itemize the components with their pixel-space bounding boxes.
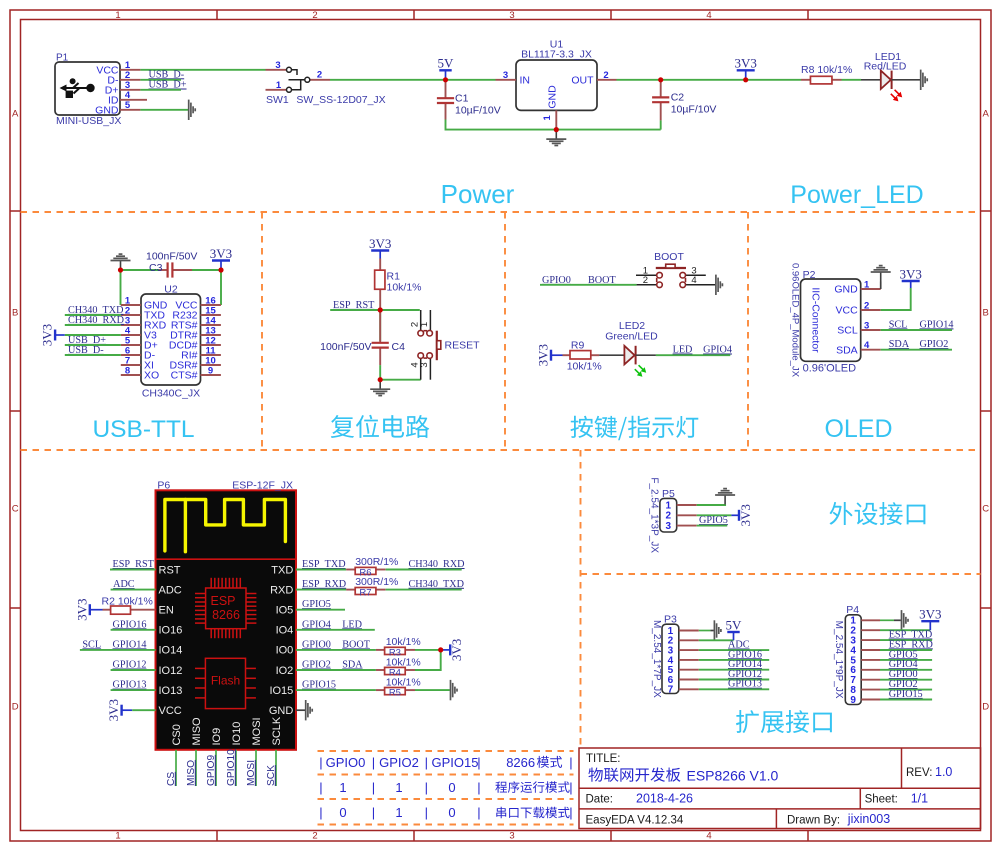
svg-text:10k/1%: 10k/1% — [386, 676, 421, 688]
wire GPIO2 SDA to R4 — [296, 669, 376, 671]
ground at P6 GND — [306, 700, 313, 720]
svg-text:IO13: IO13 — [159, 685, 183, 697]
resistor R6 300R/1% — [346, 556, 398, 570]
svg-text:BOOT: BOOT — [654, 251, 684, 263]
power flag 3V3 LED2 — [536, 344, 563, 366]
title block — [579, 748, 981, 829]
switch SW1 SW_SS-12D07_JX — [266, 60, 386, 106]
wire P4 GPIO0 — [880, 679, 932, 681]
svg-text:2: 2 — [312, 831, 317, 842]
svg-text:CH340_RXD: CH340_RXD — [409, 559, 465, 570]
wire to C4 — [379, 310, 381, 341]
svg-text:9: 9 — [208, 365, 213, 376]
svg-text:M_2.54_1*7P_JX: M_2.54_1*7P_JX — [651, 620, 662, 698]
svg-text:GPIO10: GPIO10 — [226, 749, 237, 786]
resistor R5 body — [385, 688, 406, 695]
boot mode table — [319, 755, 572, 820]
wire P1 GND — [140, 109, 188, 111]
ground at P1 GND — [189, 100, 196, 120]
svg-text:D: D — [982, 702, 989, 713]
svg-text:GPIO15: GPIO15 — [889, 689, 923, 700]
svg-text:RESET: RESET — [445, 340, 481, 352]
svg-text:SDA: SDA — [836, 344, 858, 356]
svg-text:jixin003: jixin003 — [847, 812, 890, 826]
wire USB_D- to U2 — [65, 354, 121, 356]
svg-text:3: 3 — [503, 70, 508, 81]
chip symbol Flash — [195, 658, 256, 708]
svg-text:P4: P4 — [846, 604, 859, 616]
wire P2 VCC to 3V3 — [881, 288, 911, 310]
svg-text:1: 1 — [864, 279, 870, 290]
svg-text:R5: R5 — [389, 688, 401, 699]
regulator U1 BL1117-3.3_JX — [496, 39, 617, 130]
wire P5 pin2 to 3V3 — [697, 514, 732, 516]
junction 3V3 node — [743, 77, 748, 82]
wire P4 GPIO5 — [880, 659, 932, 661]
svg-text:3V3: 3V3 — [106, 699, 121, 721]
section divider dashed lines — [21, 212, 981, 825]
wire 3V3 to V3 — [65, 334, 121, 336]
wire R4 to 3V3 node — [415, 650, 441, 670]
svg-text:U2: U2 — [164, 283, 178, 295]
power flag 5V — [438, 56, 455, 80]
svg-text:SCL: SCL — [82, 639, 101, 650]
power flag 3V3 at P6 VCC — [106, 699, 132, 721]
svg-text:3V3: 3V3 — [919, 607, 941, 622]
svg-text:TXD: TXD — [271, 564, 293, 576]
svg-text:LED: LED — [342, 619, 362, 630]
LED LED2 Green/LED — [599, 320, 658, 377]
svg-text:|: | — [569, 755, 572, 770]
svg-text:A: A — [12, 109, 19, 120]
wire GPIO15 to R5 — [296, 689, 376, 691]
svg-text:1: 1 — [115, 10, 120, 21]
wire C2 to 3V3 flag node — [661, 79, 746, 81]
wire SDA GPIO2 — [881, 349, 952, 351]
svg-text:|: | — [319, 755, 322, 770]
svg-text:|: | — [569, 805, 572, 820]
svg-text:LED: LED — [673, 345, 693, 356]
wire to U2 VCC pin — [220, 270, 222, 305]
svg-text:GPIO2: GPIO2 — [302, 660, 331, 671]
capacitor C1 10uF/10V — [446, 80, 501, 120]
svg-text:|: | — [477, 805, 480, 820]
svg-text:VCC: VCC — [836, 305, 859, 317]
wire C3 right — [192, 269, 221, 271]
svg-text:3V3: 3V3 — [74, 599, 89, 621]
ground at P3 — [714, 620, 721, 640]
svg-text:BL1117-3.3_JX: BL1117-3.3_JX — [521, 49, 592, 61]
section title 按键/指示灯 — [571, 416, 699, 441]
resistor R4 10k/1% — [376, 656, 421, 670]
svg-text:P3: P3 — [664, 614, 677, 626]
svg-text:3V3: 3V3 — [40, 324, 55, 346]
svg-text:SW1: SW1 — [266, 94, 289, 106]
resistor R3 10k/1% — [376, 636, 421, 650]
svg-text:300R/1%: 300R/1% — [355, 556, 398, 568]
wire TXD to R6 — [296, 569, 346, 571]
svg-text:C1: C1 — [455, 93, 469, 105]
title block text — [586, 753, 953, 827]
capacitor C3 plates — [168, 262, 173, 277]
svg-text:CS: CS — [166, 772, 177, 786]
wire P4 GPIO4 — [880, 669, 932, 671]
capacitor C2 10uF/10V — [661, 80, 717, 121]
svg-text:|: | — [425, 805, 428, 820]
svg-text:|: | — [319, 805, 322, 820]
svg-text:IO16: IO16 — [159, 625, 183, 637]
wire P3 GPIO13 — [699, 688, 769, 690]
svg-text:1: 1 — [276, 80, 282, 91]
svg-text:GPIO0: GPIO0 — [326, 755, 366, 770]
wire P3 GPIO16 — [699, 659, 769, 661]
svg-text:GPIO15: GPIO15 — [302, 680, 336, 691]
svg-text:|: | — [372, 755, 375, 770]
ground at BOOT — [716, 275, 723, 295]
svg-text:2: 2 — [317, 70, 322, 81]
wire SCL GPIO14 — [881, 329, 952, 331]
wire P4 GPIO2 — [880, 689, 932, 691]
resistor R4 body — [385, 667, 406, 674]
svg-text:Drawn By:: Drawn By: — [787, 815, 840, 827]
svg-text:3V3: 3V3 — [735, 56, 757, 71]
svg-text:SDA: SDA — [889, 339, 910, 350]
svg-text:0: 0 — [448, 780, 455, 795]
resistor R7 body — [355, 588, 376, 595]
svg-text:RST: RST — [159, 564, 181, 576]
svg-text:GPIO14: GPIO14 — [113, 639, 147, 650]
svg-text:A: A — [983, 109, 990, 120]
svg-text:10k/1%: 10k/1% — [387, 282, 422, 294]
wire GPIO13 — [111, 689, 156, 691]
svg-text:IO15: IO15 — [269, 685, 293, 697]
svg-text:ESP_RST: ESP_RST — [113, 559, 155, 570]
svg-text:2: 2 — [312, 10, 317, 21]
svg-text:RXD: RXD — [270, 584, 293, 596]
svg-text:P2: P2 — [803, 269, 816, 281]
svg-text:GPIO5: GPIO5 — [302, 599, 331, 610]
svg-text:7: 7 — [668, 685, 674, 696]
svg-text:BOOT: BOOT — [342, 639, 371, 650]
svg-text:IN: IN — [520, 74, 531, 86]
svg-text:GPIO5: GPIO5 — [699, 515, 728, 526]
svg-text:3V3: 3V3 — [210, 246, 232, 261]
wire GPIO0 BOOT to R3 — [296, 649, 376, 651]
svg-text:D: D — [12, 702, 19, 713]
svg-text:GPIO4: GPIO4 — [703, 345, 732, 356]
svg-text:SCK: SCK — [266, 765, 277, 786]
svg-text:EasyEDA V4.12.34: EasyEDA V4.12.34 — [586, 815, 684, 827]
connector P4 M_2.54_1*9P_JX — [833, 604, 880, 706]
wire 3V3 to VCC — [132, 709, 155, 711]
wire P4 ESP_TXD — [880, 639, 932, 641]
svg-text:1: 1 — [115, 831, 120, 842]
svg-text:C2: C2 — [671, 92, 685, 104]
wire P4 pin1 to ground — [880, 619, 894, 621]
svg-text:100nF/50V: 100nF/50V — [146, 251, 197, 263]
svg-text:IO9: IO9 — [211, 728, 223, 746]
ground at P4 — [902, 610, 909, 630]
svg-text:MISO: MISO — [186, 760, 197, 786]
svg-text:10k/1%: 10k/1% — [386, 636, 421, 648]
svg-text:USB-TTL: USB-TTL — [92, 416, 194, 443]
svg-text:3V3: 3V3 — [738, 504, 753, 526]
wire 5V to U1 IN — [446, 79, 496, 81]
ground below C4 — [370, 380, 390, 396]
connector P3 M_2.54_1*7P_JX — [651, 614, 699, 699]
svg-text:10k/1%: 10k/1% — [386, 656, 421, 668]
wire P3 GPIO12 — [699, 679, 769, 681]
svg-text:OLED: OLED — [824, 415, 892, 443]
svg-text:1: 1 — [395, 805, 402, 820]
svg-text:3: 3 — [419, 362, 430, 367]
svg-text:CH340C_JX: CH340C_JX — [142, 388, 200, 400]
resistor R3 body — [385, 647, 406, 654]
junction C4 ground node — [378, 377, 383, 382]
svg-text:ESP_TXD: ESP_TXD — [302, 559, 346, 570]
svg-text:1: 1 — [339, 780, 346, 795]
svg-text:|: | — [569, 780, 572, 795]
power flag 5V at P3 — [726, 617, 743, 640]
power flag 3V3 top rail — [735, 56, 757, 80]
svg-text:CH340_TXD: CH340_TXD — [409, 579, 464, 590]
power flag 3V3 at R2 — [74, 599, 102, 621]
ground above P5 — [715, 489, 735, 505]
ground below U1 — [546, 130, 566, 146]
resistor R2 10k/1% — [102, 595, 156, 609]
wire P3 GPIO14 — [699, 669, 769, 671]
svg-text:Red/LED: Red/LED — [864, 60, 907, 72]
svg-text:OUT: OUT — [571, 74, 594, 86]
svg-text:MOSI: MOSI — [251, 717, 263, 745]
svg-text:3V3: 3V3 — [536, 344, 551, 366]
wire C2 to ground rail — [660, 120, 662, 129]
wire USB_D- — [140, 79, 181, 81]
resistor R8 10k/1% — [801, 64, 852, 80]
svg-text:B: B — [12, 308, 18, 319]
wire C1 to ground rail — [446, 120, 557, 130]
ground at R5 — [451, 680, 458, 700]
wire R3 to 3V3 node — [415, 649, 441, 651]
svg-text:|: | — [372, 805, 375, 820]
svg-text:USB_D+: USB_D+ — [149, 80, 187, 91]
capacitor C2 plates — [652, 97, 669, 102]
wire GPIO0 BOOT — [540, 284, 637, 286]
junction 5V node at C1 — [443, 77, 448, 82]
wire P4 GPIO15 — [880, 699, 932, 701]
svg-text:GND: GND — [546, 85, 558, 109]
wire ground rail to C2 — [556, 129, 660, 131]
capacitor C3 100nF/50V — [146, 251, 197, 275]
power flag 3V3 at C3 — [210, 246, 232, 270]
svg-text:P1: P1 — [56, 53, 69, 64]
LED LED1 Red/LED — [861, 51, 920, 102]
capacitor C4 plates — [372, 343, 389, 348]
svg-text:IO14: IO14 — [159, 645, 183, 657]
wire 3V3 to R8 — [746, 79, 801, 81]
svg-text:GND: GND — [269, 705, 294, 717]
power flag 3V3 at P4 — [919, 607, 941, 631]
wire CH340_RXD — [65, 324, 121, 326]
svg-text:10µF/10V: 10µF/10V — [671, 104, 717, 116]
svg-text:SDA: SDA — [342, 660, 363, 671]
connector P1 MINI-USB_JX — [55, 53, 147, 128]
svg-text:2: 2 — [864, 300, 869, 311]
resistor R9 10k/1% — [563, 339, 602, 372]
antenna trace — [165, 500, 286, 552]
junction R3 R4 3V3 — [438, 647, 443, 652]
module P6 ESP-12F_JX — [156, 479, 297, 750]
svg-text:GPIO13: GPIO13 — [113, 680, 147, 691]
svg-text:CS0: CS0 — [171, 724, 183, 745]
section title 扩展接口 — [736, 710, 832, 733]
svg-text:1: 1 — [395, 780, 402, 795]
wire R5 to ground — [415, 689, 450, 691]
svg-text:B: B — [983, 308, 989, 319]
wire P3 pin2 to 5V — [699, 639, 734, 641]
section title 外设接口 — [830, 502, 926, 525]
svg-text:5V: 5V — [726, 617, 743, 632]
svg-text:0.96'OLED: 0.96'OLED — [803, 363, 857, 375]
svg-text:8266: 8266 — [212, 608, 240, 622]
wire R8 to LED1 — [842, 79, 862, 81]
svg-text:MOSI: MOSI — [246, 760, 257, 786]
svg-text:3: 3 — [509, 10, 514, 21]
svg-text:MINI-USB_JX: MINI-USB_JX — [56, 115, 121, 127]
svg-text:GPIO16: GPIO16 — [113, 619, 147, 630]
svg-text:GND: GND — [95, 104, 119, 116]
resistor R9 body — [570, 351, 591, 359]
svg-text:C3: C3 — [149, 262, 163, 274]
junction ground rail — [554, 127, 559, 132]
wire LED GPIO4 — [656, 354, 730, 356]
junction 3V3 node at C2 — [658, 77, 663, 82]
svg-text:GPIO14: GPIO14 — [920, 319, 954, 330]
wire ADC — [111, 589, 156, 591]
power flag 3V3 reset — [369, 236, 391, 259]
svg-text:Sheet:: Sheet: — [865, 794, 898, 806]
power flag 3V3 at U2 V3 — [40, 324, 65, 346]
svg-text:0.96OLED_4P_Module_JX: 0.96OLED_4P_Module_JX — [790, 263, 801, 378]
svg-text:IO2: IO2 — [276, 665, 294, 677]
svg-text:8266: 8266 — [506, 755, 535, 770]
connector P2 IIC 0.96'OLED — [790, 263, 881, 378]
svg-text:IO10: IO10 — [231, 722, 243, 746]
svg-text:ESP8266 V1.0: ESP8266 V1.0 — [687, 768, 779, 784]
svg-text:1: 1 — [542, 114, 553, 120]
ground above P2 — [871, 266, 891, 282]
svg-text:|: | — [319, 780, 322, 795]
resistor R6 body — [355, 567, 376, 574]
svg-text:GPIO15: GPIO15 — [432, 755, 479, 770]
svg-text:3V3: 3V3 — [449, 639, 464, 661]
power flag 3V3 at R3 — [442, 639, 464, 661]
wire VCC to SW1 pin3 — [140, 69, 265, 71]
wire P3 pin1 to ground — [699, 630, 711, 632]
power flag 3V3 OLED — [900, 266, 922, 288]
svg-text:3: 3 — [864, 320, 869, 331]
connector P5 F_2.54_1*3P_JX — [649, 477, 697, 553]
svg-text:GPIO9: GPIO9 — [206, 755, 217, 786]
svg-text:SW_SS-12D07_JX: SW_SS-12D07_JX — [296, 94, 385, 106]
svg-text:MISO: MISO — [191, 717, 203, 746]
svg-text:GPIO2: GPIO2 — [379, 755, 419, 770]
svg-text:9: 9 — [850, 695, 856, 706]
svg-text:Date:: Date: — [586, 794, 614, 806]
svg-text:|: | — [425, 755, 428, 770]
svg-text:Green/LED: Green/LED — [605, 331, 658, 343]
wire SCL GPIO14 — [80, 649, 156, 651]
capacitor C4 100nF/50V — [320, 310, 405, 365]
wire to U2 GND pin — [120, 270, 122, 305]
svg-text:2: 2 — [603, 70, 608, 81]
svg-text:Flash: Flash — [211, 674, 240, 688]
pushbutton RESET — [410, 310, 481, 380]
svg-text:Power: Power — [441, 179, 515, 209]
svg-text:GND: GND — [834, 284, 858, 296]
svg-text:1/1: 1/1 — [911, 792, 928, 806]
svg-text:3V3: 3V3 — [369, 236, 391, 251]
svg-text:C: C — [12, 504, 19, 515]
svg-text:F_2.54_1*3P_JX: F_2.54_1*3P_JX — [649, 477, 660, 553]
svg-text:R7: R7 — [359, 587, 371, 598]
wire USB_D+ — [140, 89, 181, 91]
resistor R1 10k/1% leads — [380, 259, 421, 310]
wire P2 GND to ground — [880, 282, 882, 290]
svg-text:10k/1%: 10k/1% — [567, 360, 602, 372]
wire GPIO5 — [296, 609, 345, 611]
wire C3 left — [121, 269, 160, 271]
svg-text:3: 3 — [666, 521, 672, 532]
svg-text:R9: R9 — [571, 339, 585, 351]
svg-text:IO4: IO4 — [276, 625, 294, 637]
svg-text:REV:: REV: — [906, 767, 932, 779]
wire ground node to RESET button — [380, 379, 421, 381]
svg-text:P5: P5 — [662, 488, 675, 500]
svg-text:0: 0 — [448, 805, 455, 820]
svg-text:|: | — [477, 780, 480, 795]
svg-text:2: 2 — [643, 275, 648, 286]
chip symbol ESP8266 — [195, 578, 256, 638]
wire P3 ADC — [699, 649, 769, 651]
wire GPIO12 — [111, 669, 156, 671]
wire GPIO4 LED — [296, 629, 375, 631]
svg-text:TITLE:: TITLE: — [586, 753, 621, 765]
svg-text:4: 4 — [864, 340, 870, 351]
capacitor C1 plates — [437, 98, 454, 103]
wire P6 GND to ground — [296, 709, 305, 711]
wire CH340_TXD — [65, 314, 121, 316]
svg-text:SCL: SCL — [889, 319, 908, 330]
junction C3 right — [218, 267, 223, 272]
svg-text:SCLK: SCLK — [271, 716, 283, 745]
wire P6 bottom pins — [176, 750, 276, 786]
wire R6 to CH340_RXD — [386, 569, 462, 571]
svg-text:ESP: ESP — [210, 594, 235, 608]
wire P5 pin3 GPIO5 — [697, 525, 728, 527]
svg-text:GPIO0: GPIO0 — [302, 639, 331, 650]
svg-text:3: 3 — [275, 60, 280, 71]
svg-text:ESP-12F_JX: ESP-12F_JX — [232, 479, 293, 491]
wire R7 to CH340_TXD — [386, 589, 462, 591]
svg-text:300R/1%: 300R/1% — [355, 576, 398, 588]
resistor R2 body — [111, 606, 131, 614]
svg-text:C4: C4 — [392, 341, 406, 353]
svg-text:SCL: SCL — [837, 325, 858, 337]
svg-text:GPIO4: GPIO4 — [302, 619, 331, 630]
wire ESP_RST to RST — [110, 569, 156, 571]
svg-text:GPIO13: GPIO13 — [728, 679, 762, 690]
